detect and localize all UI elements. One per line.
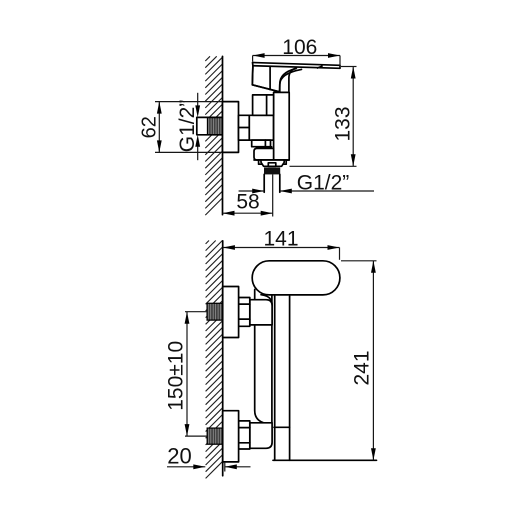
escutcheon plate (top drawing) xyxy=(223,102,239,153)
step block xyxy=(252,140,271,147)
valve block xyxy=(249,115,273,140)
handle capsule xyxy=(252,261,340,295)
dark ring (hose seal) xyxy=(264,168,280,175)
svg-text:58: 58 xyxy=(236,191,259,214)
body column (bottom drawing) xyxy=(274,296,276,460)
wall hatch (top drawing) xyxy=(205,56,222,215)
dim 141 xyxy=(223,247,340,249)
dim 20 xyxy=(167,466,205,468)
svg-text:G1/2”: G1/2” xyxy=(297,171,350,194)
lever neck xyxy=(289,68,297,93)
body bottom line + 241 bottom extension xyxy=(273,459,377,461)
handle blade profile xyxy=(255,290,263,423)
hose collar nut xyxy=(261,160,284,166)
lower connector block xyxy=(250,423,272,449)
svg-text:62: 62 xyxy=(139,116,161,138)
svg-text:150±10: 150±10 xyxy=(164,341,187,411)
lower hex nut xyxy=(239,421,250,449)
handle blade xyxy=(253,63,341,69)
outlet block xyxy=(254,148,274,160)
thread block (top drawing) xyxy=(208,117,223,134)
label G1/2 (wall inlet) xyxy=(197,93,199,109)
cartridge housing xyxy=(253,95,274,115)
body bottom line xyxy=(254,159,289,161)
hose pipe xyxy=(263,174,265,192)
dim 62 extension lines xyxy=(155,101,223,103)
dim 106 xyxy=(253,55,340,57)
svg-text:241: 241 xyxy=(351,350,374,385)
label G1/2 (hose outlet) xyxy=(239,190,265,192)
svg-text:133: 133 xyxy=(332,106,355,141)
lower escutcheon xyxy=(223,411,239,462)
wall hatch (bottom drawing) xyxy=(206,241,223,479)
dim 58 xyxy=(223,212,273,214)
capsule-to-body swoop xyxy=(261,295,272,306)
upper thread xyxy=(207,303,223,320)
dim 62 xyxy=(158,102,160,153)
svg-text:20: 20 xyxy=(167,444,191,469)
G1/2 nipple (top drawing) xyxy=(197,117,223,134)
side tabs xyxy=(259,160,262,164)
svg-text:G1/2”: G1/2” xyxy=(176,100,199,153)
wall face line (top drawing) xyxy=(222,56,224,214)
svg-text:141: 141 xyxy=(263,228,298,251)
dim 150±10 xyxy=(185,311,207,313)
upper escutcheon xyxy=(223,287,239,338)
eccentric connector xyxy=(239,115,250,140)
dim 241 xyxy=(341,260,377,262)
upper connector block xyxy=(250,300,272,325)
lower thread xyxy=(207,428,223,444)
svg-text:106: 106 xyxy=(282,36,317,59)
upper hex nut xyxy=(239,298,250,327)
handle cover xyxy=(252,66,296,92)
body column (top drawing) xyxy=(274,92,290,160)
dim 133 xyxy=(341,66,357,68)
dark shadow line xyxy=(256,146,272,149)
wall face line (bottom drawing) xyxy=(222,241,224,476)
